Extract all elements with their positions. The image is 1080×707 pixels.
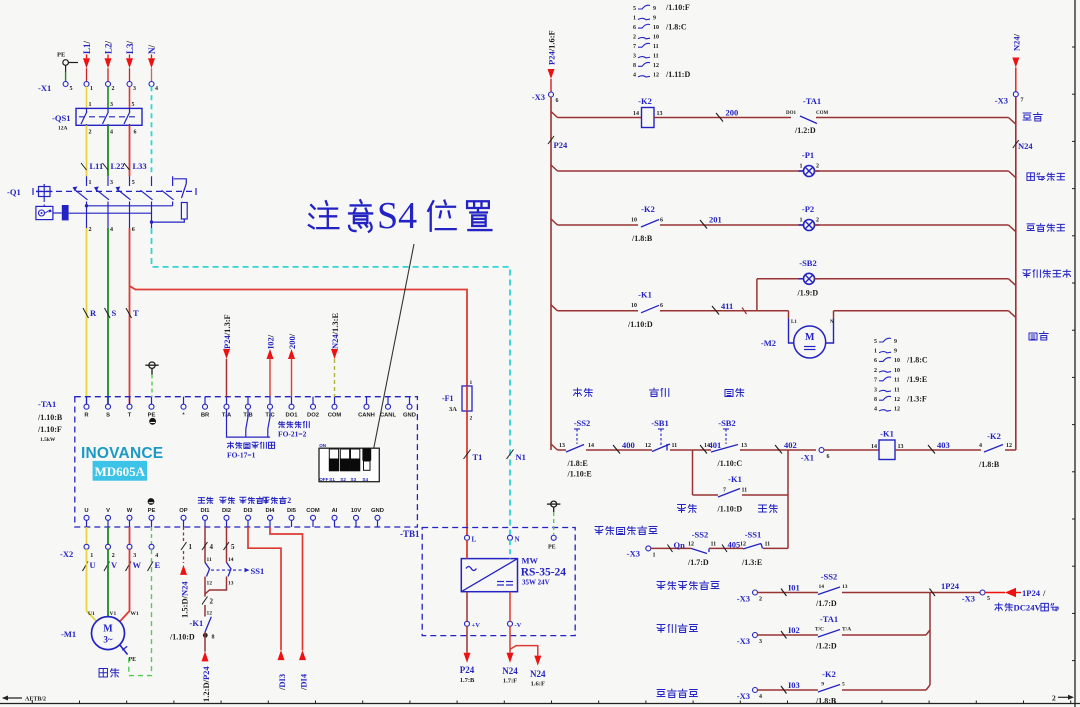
wire DI2 join DI1 [205,577,227,595]
svg-text:FO-17=1: FO-17=1 [227,451,256,460]
DIP switch S1-S4 [319,448,379,482]
svg-text:3: 3 [110,102,113,108]
Q1 sensing coil [36,206,53,219]
svg-text:8: 8 [633,63,636,69]
svg-text:N24: N24 [530,669,546,679]
svg-text:OP: OP [179,508,188,514]
label 正转 [198,498,204,503]
signal arrow DI3 [278,650,285,660]
svg-text:/1.2:D: /1.2:D [815,642,837,651]
svg-text:4: 4 [210,543,214,551]
svg-text:6: 6 [874,358,877,364]
svg-text:MW: MW [522,556,539,566]
breaker -Q1 actuator dashed [32,188,34,195]
svg-text:M: M [103,624,113,635]
rung wire 10 [834,310,1009,312]
terminal L [465,535,470,540]
svg-text:-K2: -K2 [641,204,655,214]
svg-text:-X2: -X2 [60,549,73,559]
svg-text:/1.8:E: /1.8:E [567,459,588,468]
svg-text:4: 4 [155,86,158,92]
svg-text:T/A: T/A [842,627,851,633]
coil -K1 [879,440,895,460]
svg-text:2: 2 [816,218,819,224]
wire psu to +V [466,592,468,622]
svg-text:10V: 10V [351,508,361,514]
svg-text:405: 405 [728,540,741,550]
svg-text:S4: S4 [377,195,417,237]
wire remote up [763,547,788,549]
rung wire [551,112,558,118]
label N1 [507,450,514,460]
svg-text:-X3: -X3 [627,549,640,559]
wire L1 to QS1 [86,86,88,108]
wire T red [129,228,131,404]
rung wire 7 [757,278,804,280]
svg-text:2: 2 [112,86,115,92]
wire W to motor [120,549,130,622]
wire DI1 label 4 [202,542,208,550]
rung wire 4 [815,170,1009,172]
inverter U1 dashed enclosure [75,397,418,527]
terminal -X1 pin 4 [149,82,154,87]
terminal -X1 pin 6b [819,448,824,453]
svg-text:/1.10:F: /1.10:F [665,3,690,12]
svg-text:/1.10:E: /1.10:E [567,470,592,479]
signal arrow P24 to DI1 [204,632,206,652]
svg-text:I02: I02 [788,625,800,635]
svg-text:OFF: OFF [319,477,328,482]
svg-text:-K1: -K1 [190,618,204,628]
switch -SS2 local [566,445,584,453]
coil -K2 [642,108,655,128]
wire L33 red [129,125,131,176]
svg-text:P24: P24 [554,140,568,150]
svg-text:/1.10:D: /1.10:D [717,505,743,514]
svg-text:8: 8 [874,397,877,403]
PE dot symbol [149,418,156,425]
svg-text:-X3: -X3 [962,594,975,604]
wire N into psu [509,540,511,559]
svg-text:12: 12 [894,407,900,413]
svg-text:1: 1 [90,86,93,92]
svg-text:/1.10:F: /1.10:F [37,425,62,434]
svg-text:10: 10 [653,25,659,31]
svg-text:-X1: -X1 [801,453,814,463]
label 远程 [678,505,686,513]
lamp -SB2 [799,278,804,280]
wire U to motor [87,549,98,622]
svg-text:1: 1 [800,164,803,170]
svg-text:AETB/2: AETB/2 [25,697,46,703]
svg-text:N24: N24 [1018,141,1033,151]
svg-text:4: 4 [155,553,158,559]
svg-text:-X3: -X3 [737,636,750,646]
svg-text:4: 4 [110,130,113,136]
svg-text:13: 13 [741,443,747,449]
row 远程反馈信号 label [657,582,665,590]
svg-text:12: 12 [653,63,659,69]
svg-text:GND: GND [371,508,384,514]
label L22 [103,163,109,170]
svg-text:CANL: CANL [380,413,397,419]
svg-text:/DI3: /DI3 [277,674,287,691]
svg-text:12: 12 [688,542,694,548]
terminal +V [465,621,470,626]
rung wire 6 [815,224,1009,226]
wire OP dashed [183,527,185,541]
svg-text:10: 10 [894,368,900,374]
terminal -X1 pin 2 [106,82,111,87]
svg-text:P24/1.6:F: P24/1.6:F [547,30,557,65]
wire from fan N [833,311,835,319]
svg-text:7: 7 [723,488,726,494]
svg-text:13: 13 [559,443,565,449]
svg-text:L11: L11 [90,161,104,171]
svg-text:N24/: N24/ [1011,33,1021,51]
PE dot symbol bottom [148,498,155,505]
svg-text:2: 2 [287,496,291,505]
svg-text:-K1: -K1 [880,429,894,439]
wire crossing jog [742,308,747,315]
svg-text:DI4: DI4 [265,508,275,514]
svg-text:V: V [111,560,118,570]
svg-text:1: 1 [653,553,656,559]
contact -SS1 remote sel [743,544,761,550]
svg-text:12: 12 [740,542,746,548]
svg-text:8: 8 [212,635,215,641]
svg-text:BR: BR [201,413,210,419]
svg-text:4: 4 [979,443,982,449]
svg-text:12: 12 [894,397,900,403]
svg-text:9: 9 [653,6,656,12]
Q1 trip solenoid [53,212,62,214]
svg-text:DO1: DO1 [786,111,797,116]
Q1 test button [39,187,51,197]
svg-text:6: 6 [556,98,559,104]
svg-text:U: U [84,508,88,514]
lamp -P1 [799,170,804,172]
svg-text:S4: S4 [362,477,368,482]
svg-text:9: 9 [894,349,897,355]
terminal -X3 pin 5 [980,590,985,595]
svg-text:/1.8:C: /1.8:C [665,22,687,31]
wire T branch to F1 [130,286,468,386]
wire W to X2 [129,527,131,545]
Q1 test resistor branch [174,179,187,184]
wire L into psu [466,540,468,559]
svg-text:1.2:D/P24: 1.2:D/P24 [201,666,211,702]
svg-text:-M1: -M1 [61,629,76,639]
svg-text:-SS1: -SS1 [745,530,762,540]
wire L2 to QS1 [107,86,109,108]
label L33 [124,163,130,170]
svg-text:1.5kW: 1.5kW [40,437,56,443]
wire E to X2 [151,527,153,545]
label 启动 [725,390,733,397]
svg-text:2: 2 [89,227,92,233]
svg-text:11: 11 [207,557,212,563]
wire L22 green [107,125,109,176]
svg-text:5: 5 [633,6,636,12]
svg-text:N24/1.3:E: N24/1.3:E [330,313,340,349]
svg-text:/1.9:E: /1.9:E [906,375,927,384]
svg-text:DI1: DI1 [200,508,210,514]
wire W label [126,562,132,572]
svg-text:DI5: DI5 [287,508,297,514]
svg-text:T1: T1 [473,452,483,462]
svg-text:14: 14 [704,443,710,449]
svg-text:DI2: DI2 [222,508,231,514]
label 变频器运行中 FO-17=1 [227,442,233,448]
breaker -QS1 [76,108,142,125]
svg-text:1P24: 1P24 [941,581,960,591]
rung wire 9 [551,305,558,311]
svg-text:3A: 3A [449,406,457,413]
svg-text:12: 12 [645,443,651,449]
svg-text:/1.10:D: /1.10:D [169,633,195,642]
wire V to motor [107,549,109,616]
svg-text:-K2: -K2 [638,96,652,106]
svg-text:-V: -V [515,622,522,629]
label 正转 [759,505,767,512]
svg-text:200/: 200/ [287,333,297,349]
svg-text:-SS2: -SS2 [574,418,591,428]
svg-text:MD605A: MD605A [95,464,146,479]
rung wire 3 [551,165,558,171]
ground symbol above PSU PE [551,501,557,507]
signal arrow N24 1.7:F [509,626,511,653]
switch -SS1 linkage [211,569,244,571]
motor PE stub [120,645,128,655]
wire PE green to PSU [553,512,555,535]
motor -M1 [92,617,125,650]
svg-text:7: 7 [633,44,636,50]
svg-text:-K1: -K1 [728,474,742,484]
svg-text:5: 5 [70,86,73,92]
ground symbol above inverter PE [149,362,155,368]
wire PE green to X1 [65,72,67,82]
label T [126,308,132,318]
svg-text:/1.11:D: /1.11:D [665,70,690,79]
svg-text:11: 11 [894,387,900,393]
svg-text:N1: N1 [516,452,526,462]
svg-text:-X3: -X3 [532,92,545,102]
svg-text:L1: L1 [791,320,797,325]
svg-text:U: U [90,560,96,570]
wire DI3 run [248,527,281,650]
svg-text:AI: AI [332,508,338,514]
svg-text:-X3: -X3 [737,691,750,701]
wire V to X2 [107,527,109,545]
svg-text:5: 5 [987,596,990,602]
svg-text:S: S [112,308,117,318]
lamp -P2 [799,224,804,226]
wire N cyan run [152,228,511,535]
label 异常 [1023,113,1031,120]
svg-text:5: 5 [231,543,235,551]
svg-text:2: 2 [633,34,636,40]
svg-text:PE: PE [148,413,156,419]
svg-text:T: T [128,413,132,419]
terminal -X3 pin 1 [646,546,651,551]
svg-text:7: 7 [1021,98,1024,104]
contact -K2 aux [641,220,659,228]
svg-text:5: 5 [132,180,135,186]
terminal -X1 pin 5 [63,82,68,87]
rung wire 12 [1005,449,1016,451]
svg-text:-X1: -X1 [38,83,51,93]
wire DI4 run [270,527,303,650]
svg-text:S1: S1 [329,477,335,482]
Q1 pole stubs [86,202,88,206]
svg-text:N: N [830,320,834,325]
wire 201 [660,224,804,226]
row 运行信号 label [657,625,665,633]
svg-text:PE: PE [148,508,156,514]
label 运行指示灯 [1023,270,1030,277]
svg-text:2: 2 [874,368,877,374]
svg-text:DC24V: DC24V [1014,603,1042,613]
rung wire 11 [551,444,558,450]
svg-text:6: 6 [633,25,636,31]
svg-text:DI3: DI3 [243,508,253,514]
svg-text:W: W [133,560,142,570]
svg-text:1.7:F: 1.7:F [503,678,517,685]
label 风扇 [1029,333,1037,340]
svg-text:3: 3 [133,86,136,92]
svg-text:S2: S2 [340,477,346,482]
svg-text:ON: ON [319,443,327,448]
svg-text:10: 10 [631,218,637,224]
svg-text:403: 403 [937,440,950,450]
wire psu to -V [509,592,511,622]
row run signal [753,633,758,638]
svg-text:T: T [133,308,139,318]
svg-text:V: V [106,508,110,514]
svg-text:3: 3 [110,180,113,186]
svg-text:3~: 3~ [103,635,113,645]
svg-text:-P2: -P2 [802,204,814,214]
svg-text:RS-35-24: RS-35-24 [521,567,567,579]
svg-text:400: 400 [622,440,635,450]
svg-text:-M2: -M2 [761,338,776,348]
svg-text:4: 4 [874,407,877,413]
frame right border [1074,0,1076,707]
inverter bottom terminals [86,520,88,527]
wire R yellow [86,228,88,404]
svg-text:6: 6 [132,227,135,233]
svg-text:13: 13 [898,444,904,450]
label 反转 [220,497,226,503]
row remote feedback [753,590,758,595]
svg-text:P24: P24 [460,665,475,675]
svg-text:1: 1 [633,15,636,21]
svg-text:-TA1: -TA1 [38,399,56,409]
svg-text:200: 200 [726,108,739,118]
svg-text:P24/1.3:F: P24/1.3:F [222,314,232,349]
svg-text:12A: 12A [58,126,68,132]
svg-text:N24: N24 [502,666,518,676]
wire OP label 1 [181,542,187,550]
svg-text:1: 1 [89,102,92,108]
svg-text:11: 11 [653,44,659,50]
svg-text:1.7:B: 1.7:B [460,677,475,684]
svg-text:L2/: L2/ [104,40,114,54]
svg-text:-SS2: -SS2 [821,572,838,582]
svg-text:S: S [106,413,110,419]
wire to K1 coil [824,449,879,451]
svg-text:/1.3:E: /1.3:E [741,558,762,567]
terminal -X2 [84,544,89,549]
svg-text:-Q1: -Q1 [7,187,21,197]
wire E label [148,562,154,572]
wire 411 [660,310,789,312]
svg-text:9: 9 [821,682,824,688]
svg-text:/1.3:F: /1.3:F [906,394,927,403]
wire bus vertical right [929,593,931,686]
svg-text:2: 2 [816,164,819,170]
signal arrow P24 1.7:B [466,626,468,653]
svg-text:2: 2 [1052,694,1056,703]
svg-text:35W 24V: 35W 24V [522,579,550,587]
contact -SS2 remote sel [691,548,707,553]
svg-text:12: 12 [207,611,213,617]
svg-text:14: 14 [819,584,825,590]
svg-text:/1.2:D: /1.2:D [794,126,816,135]
wire fault join [926,685,930,690]
terminal PE psu [551,535,556,540]
label T1 [464,450,471,460]
svg-text:PE: PE [57,52,65,59]
svg-text:1.6:F: 1.6:F [531,681,545,688]
svg-text:10: 10 [631,303,637,309]
wire PE green dashed to inverter [151,375,153,397]
svg-text:-F1: -F1 [442,394,454,403]
svg-text:12: 12 [1006,443,1012,449]
svg-text:10: 10 [653,34,659,40]
svg-text:6: 6 [134,130,137,136]
svg-text:M: M [805,332,815,343]
terminal -X1 pin 3 [127,82,132,87]
svg-text:11: 11 [894,378,900,384]
svg-text:L3/: L3/ [125,40,135,54]
contact -K2 interlock [984,445,1003,453]
svg-text:5: 5 [874,339,877,345]
svg-text:1: 1 [800,218,803,224]
svg-text:/1.7:D: /1.7:D [815,599,837,608]
svg-text:-K2: -K2 [822,669,836,679]
svg-text:-K2: -K2 [987,431,1001,441]
label R [83,308,89,318]
svg-text:/1.10:C: /1.10:C [717,459,743,468]
svg-text:6: 6 [660,303,663,309]
svg-text:/1.8:B: /1.8:B [631,234,653,243]
svg-text:1: 1 [874,349,877,355]
svg-text:1: 1 [189,543,193,551]
wire DI1 lower [204,577,206,597]
fuse -F1 [462,386,472,411]
rung wire 2 [816,117,1009,119]
svg-text:I02/: I02/ [266,334,276,349]
svg-text:10: 10 [894,358,900,364]
svg-text:4: 4 [110,227,113,233]
wire L11 yellow [86,125,88,176]
wire N cyan to Q1 [151,86,153,176]
wire 400 [586,449,652,451]
svg-text:3: 3 [133,553,136,559]
svg-text:L1/: L1/ [82,40,92,54]
